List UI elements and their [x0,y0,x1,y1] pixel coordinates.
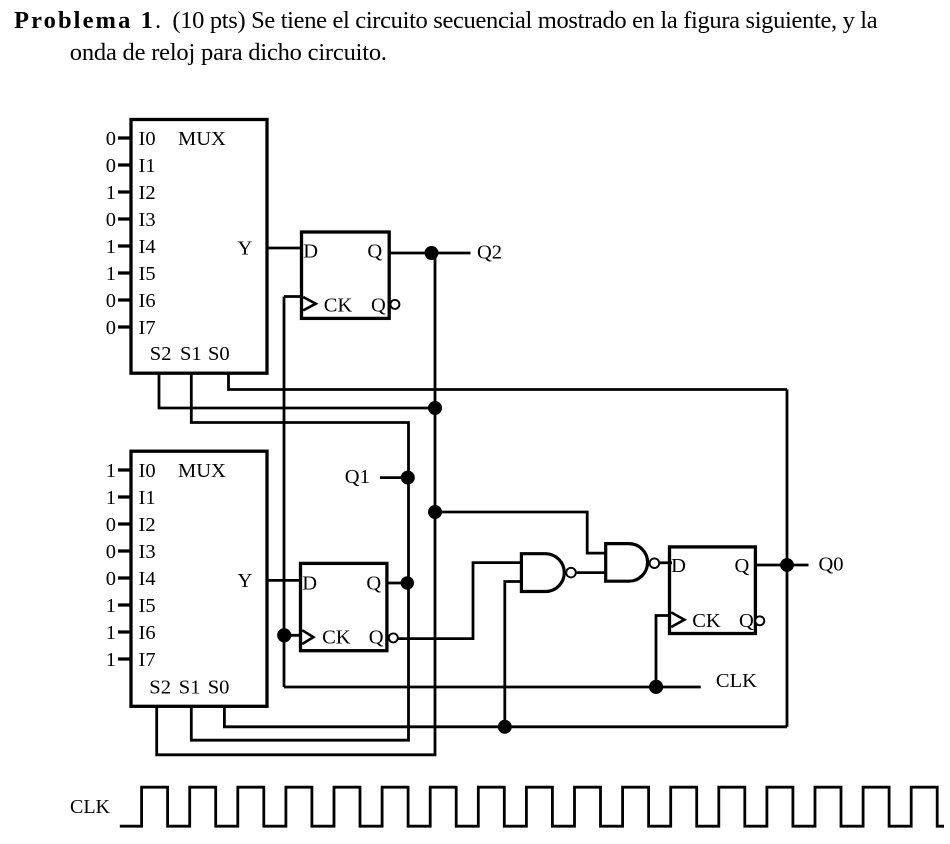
svg-text:I5: I5 [139,595,156,617]
svg-text:Y: Y [238,570,253,592]
svg-text:S2: S2 [150,343,172,365]
svg-text:S0: S0 [208,343,230,365]
svg-text:onda de reloj para dicho circu: onda de reloj para dicho circuito. [70,39,387,66]
svg-text:0: 0 [106,155,116,177]
svg-text:I7: I7 [139,649,156,671]
svg-text:Q: Q [369,627,384,649]
svg-text:D: D [303,241,318,263]
svg-text:0: 0 [106,541,116,563]
svg-text:0: 0 [106,317,116,339]
svg-text:0: 0 [106,568,116,590]
svg-text:CK: CK [322,627,351,649]
svg-text:I7: I7 [139,317,156,339]
svg-text:S1: S1 [179,676,201,698]
svg-text:CK: CK [324,294,353,316]
svg-text:MUX: MUX [178,128,226,150]
svg-text:I2: I2 [139,514,156,536]
svg-text:I0: I0 [139,460,156,482]
svg-text:Q2: Q2 [477,241,502,263]
svg-text:D: D [302,573,317,595]
svg-text:1: 1 [106,649,116,671]
svg-text:Y: Y [238,237,253,259]
svg-text:0: 0 [106,514,116,536]
svg-text:I2: I2 [139,182,156,204]
svg-text:1: 1 [106,236,116,258]
svg-text:0: 0 [106,128,116,150]
svg-text:I5: I5 [139,263,156,285]
svg-text:Q0: Q0 [819,553,844,575]
svg-text:CLK: CLK [716,670,757,692]
svg-text:Q: Q [739,610,754,632]
svg-text:Q: Q [367,241,382,263]
svg-text:Q: Q [735,555,750,577]
svg-text:1: 1 [106,622,116,644]
svg-text:0: 0 [106,209,116,231]
svg-text:S1: S1 [180,343,202,365]
svg-text:1: 1 [106,460,116,482]
svg-text:1: 1 [106,487,116,509]
svg-text:1: 1 [106,263,116,285]
svg-text:Q1: Q1 [345,466,370,488]
svg-text:D: D [671,555,686,577]
svg-text:Q: Q [366,573,381,595]
svg-text:0: 0 [106,290,116,312]
svg-text:CK: CK [692,610,721,632]
svg-text:I3: I3 [139,541,156,563]
svg-text:CLK: CLK [70,796,111,818]
svg-text:S2: S2 [149,676,171,698]
svg-text:MUX: MUX [178,460,226,482]
svg-text:I4: I4 [139,568,156,590]
svg-text:I1: I1 [139,155,156,177]
svg-text:I6: I6 [139,622,156,644]
svg-text:I0: I0 [139,128,156,150]
svg-text:I1: I1 [139,487,156,509]
svg-text:Problema 1. (10 pts) Se tiene: Problema 1. (10 pts) Se tiene el circuit… [14,7,878,34]
svg-text:Q: Q [371,294,386,316]
svg-text:I6: I6 [139,290,156,312]
svg-text:1: 1 [106,182,116,204]
svg-text:1: 1 [106,595,116,617]
svg-text:I3: I3 [139,209,156,231]
svg-text:S0: S0 [208,676,230,698]
svg-text:I4: I4 [139,236,156,258]
